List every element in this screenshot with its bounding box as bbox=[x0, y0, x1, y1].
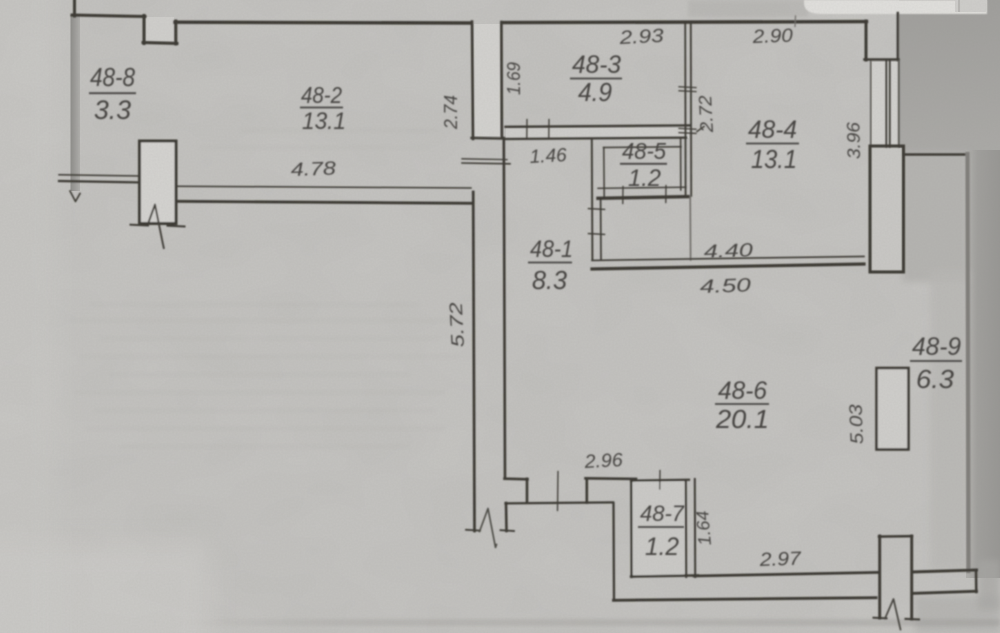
wall: 48-3 bottom lower line / 48-5 top bbox=[506, 138, 687, 139]
door tick pair at y88 bbox=[679, 86, 696, 89]
wall between 48-3/48-5 and 48-4: double lines bbox=[684, 23, 686, 197]
step wall: horizontal y478 to 48-7 bbox=[586, 477, 637, 480]
door ticks on 48-3 bottom wall bbox=[526, 120, 528, 138]
corridor right wall lower remnant bbox=[505, 503, 508, 531]
48-7 box top bbox=[631, 479, 689, 482]
48-5 box bottom thick bbox=[598, 197, 688, 199]
window: right wall glazing lines bbox=[870, 61, 872, 147]
wall: top-right step horizontal bbox=[865, 58, 899, 61]
48-5 box inner left bbox=[603, 148, 605, 197]
step wall: vertical at x587 bbox=[585, 478, 588, 502]
corridor right wall end tick bbox=[501, 529, 515, 532]
corridor break zigzag bbox=[480, 509, 497, 548]
wall: top-right stub up to page edge bbox=[897, 13, 899, 60]
wall: top-left horizontal (48-8 top) bbox=[72, 15, 145, 17]
niche right vertical bbox=[500, 22, 503, 138]
48-5 box bottom thin bbox=[598, 187, 686, 188]
wall 4.40/4.50: top thin line bbox=[592, 256, 864, 260]
bottom wall right end cap bbox=[975, 570, 978, 592]
48-7 box left wall bbox=[630, 480, 633, 577]
48-7 box outer right bbox=[694, 479, 696, 577]
48-5 box inner top bbox=[604, 146, 682, 149]
column end tick left bbox=[874, 617, 887, 620]
wall: main top wall right segment (48-3 / 48-4) bbox=[502, 22, 867, 23]
shaft box right (ventilation) bbox=[870, 146, 904, 272]
step wall: long horizontal at y503 bbox=[506, 502, 614, 503]
wall: 48-4 left lower segment to 4.40 wall bbox=[689, 196, 691, 260]
step wall: vertical at x527 bbox=[526, 479, 529, 503]
wall: top notch left vertical bbox=[143, 16, 146, 44]
medium shadow between shaft and outer wall bbox=[902, 152, 968, 282]
48-7 tick on top bbox=[659, 471, 661, 490]
bottom wall: left vertical cap at x613 bbox=[612, 503, 615, 600]
darker strip above wall left of white band bbox=[688, 0, 808, 17]
wall band 48-2/48-1: upper thin line bbox=[176, 186, 471, 188]
48-7 box interior light fill bbox=[633, 482, 684, 575]
wall: right exterior (gray) bbox=[968, 154, 969, 571]
bottom wall: lower long line bbox=[614, 598, 877, 601]
entrance door jamb rectangle bbox=[140, 141, 177, 224]
door bottom tick right bbox=[168, 225, 185, 228]
arrow mark at end of left wall bbox=[70, 191, 80, 202]
faint bleed-through streaks bbox=[70, 128, 460, 449]
wall: top-right corner down bbox=[865, 21, 868, 60]
48-9 shaft box bbox=[877, 368, 909, 450]
column end tick right bbox=[906, 618, 920, 621]
wall: left exterior top stub bbox=[73, 0, 76, 16]
wall band 48-2/48-1: lower thick line bbox=[176, 201, 473, 203]
corridor 48-1 right wall (continuous from niche) bbox=[504, 138, 505, 478]
48-5 box left outer wall down to 4.40 wall bbox=[591, 140, 594, 260]
corridor left wall end tick bbox=[466, 529, 480, 532]
bottom wall: upper line right of 48-7 bbox=[694, 572, 878, 576]
door tick pair at y130 bbox=[679, 127, 696, 130]
door break zigzag bbox=[149, 205, 164, 249]
wall lines left of entrance door (48-8 bottom) bbox=[59, 175, 139, 176]
dark scan patch top-right bbox=[899, 0, 1000, 156]
pocket wall second line x601 bbox=[600, 200, 602, 259]
lighter bottom-left corner bbox=[0, 545, 210, 633]
wall 4.40/4.50: bottom thick line bbox=[592, 264, 864, 269]
wall: top notch bottom bbox=[143, 43, 177, 44]
wall: 48-3 bottom upper line bbox=[506, 125, 691, 126]
niche bottom bbox=[472, 137, 503, 140]
dimension tick on top wall at x795 bbox=[794, 16, 797, 27]
48-7 box bottom bbox=[631, 575, 698, 576]
door bottom tick left bbox=[131, 224, 149, 227]
column break zigzag bbox=[885, 599, 901, 630]
door ticks on 48-5 bottom bbox=[622, 187, 624, 204]
niche between 48-2 and 48-3: left vertical bbox=[472, 22, 473, 140]
left wall gray band bbox=[71, 15, 81, 191]
lighter niche interiors bbox=[474, 24, 500, 136]
48-5 box inner right bbox=[680, 139, 682, 190]
bottom column: top cap bbox=[879, 535, 912, 538]
bottom column: right vertical bbox=[910, 536, 913, 619]
white band top-right bbox=[804, 0, 987, 14]
48-7 box inner right bbox=[685, 480, 687, 577]
step wall: corridor to 48-6 top horizontal bbox=[505, 477, 528, 480]
dark right margin beyond outer wall bbox=[966, 150, 1000, 578]
bottom wall right of column: upper line bbox=[912, 570, 977, 572]
door opening lines at corridor top (1.46) bbox=[462, 158, 507, 161]
corridor 48-1 left wall bbox=[473, 192, 474, 531]
bottom column: left vertical bbox=[878, 536, 881, 618]
door ticks on pocket wall bbox=[589, 208, 605, 211]
faint fold smudge along bottom bbox=[0, 0, 1, 1]
small slanted tick at 2.72 dim end bbox=[697, 127, 704, 132]
bottom wall right of column: lower line bbox=[912, 591, 977, 593]
wall: top notch right vertical bbox=[174, 21, 177, 44]
dimension tick x558 (2.96) bbox=[557, 472, 560, 511]
soft darkening bottom-right corner below wall bbox=[915, 596, 1000, 633]
wall: main top wall left segment (48-2 / 48-3) bbox=[175, 21, 470, 25]
wall: connector shaft to outer wall bbox=[904, 153, 967, 156]
